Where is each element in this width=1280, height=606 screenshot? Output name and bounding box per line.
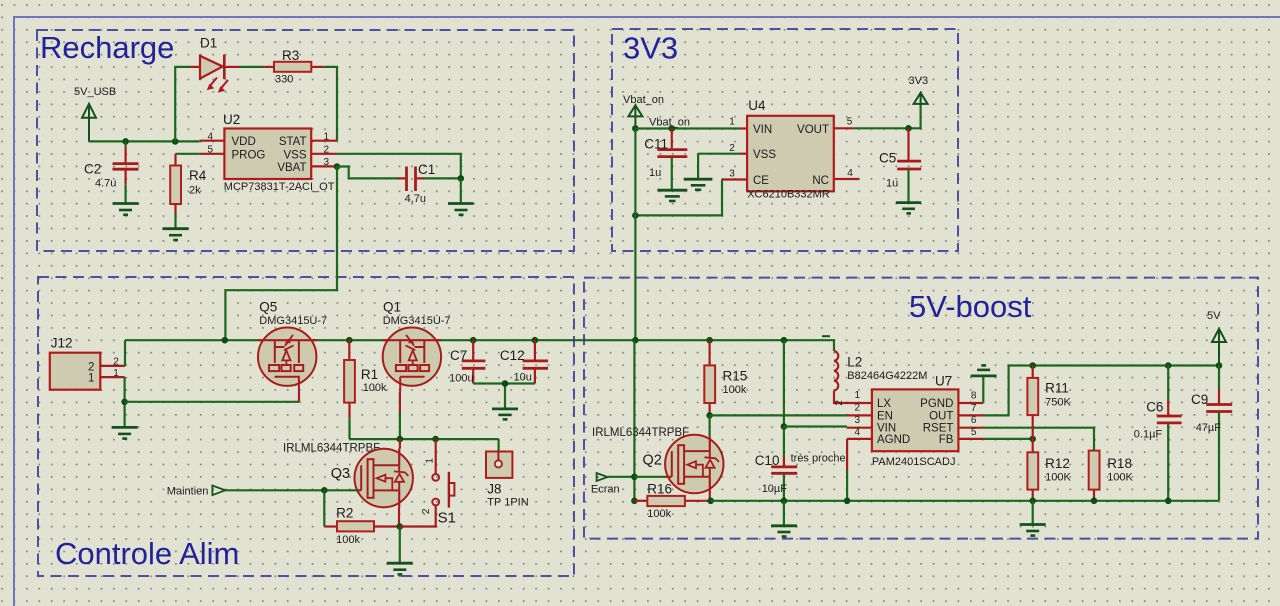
junction R16 left	[631, 498, 638, 505]
wire Q5 gate net	[125, 401, 299, 403]
svg-text:100k: 100k	[647, 508, 671, 520]
transistor Q2	[665, 435, 723, 501]
svg-text:XC6210B332MR: XC6210B332MR	[747, 189, 830, 201]
ground above PGND inverted	[971, 365, 997, 376]
wire VSS to ground	[698, 154, 740, 178]
svg-text:MCP73831T-2ACI_OT: MCP73831T-2ACI_OT	[224, 181, 335, 193]
svg-text:C2: C2	[84, 162, 101, 177]
capacitor C6	[1157, 366, 1182, 501]
svg-text:C11: C11	[644, 136, 668, 151]
wire R12 to ground	[1032, 501, 1034, 524]
U2 pin 1 STAT	[311, 140, 337, 142]
svg-text:DMG3415U-7: DMG3415U-7	[383, 315, 451, 327]
capacitor C12	[523, 340, 548, 383]
svg-text:Q3: Q3	[331, 466, 350, 482]
svg-text:C10: C10	[755, 453, 780, 468]
U7 pin 6 RSET	[958, 427, 983, 429]
svg-text:R12: R12	[1045, 456, 1070, 471]
svg-text:2: 2	[834, 400, 845, 406]
svg-text:VIN: VIN	[877, 423, 896, 435]
junction R12 bottom	[1029, 498, 1036, 505]
svg-text:6: 6	[971, 415, 977, 426]
wire 5V_USB rail	[89, 140, 200, 142]
svg-text:3: 3	[324, 157, 330, 168]
svg-text:D1: D1	[200, 36, 217, 51]
region box 3V3	[612, 29, 958, 251]
svg-text:7: 7	[971, 403, 977, 414]
junction C1 right	[458, 175, 465, 182]
svg-text:IRLML6344TRPBF: IRLML6344TRPBF	[283, 443, 380, 455]
svg-text:Q1: Q1	[383, 300, 401, 315]
svg-text:8: 8	[971, 391, 977, 402]
svg-text:5: 5	[847, 117, 853, 128]
svg-text:R11: R11	[1045, 381, 1069, 396]
wire D1 to R3	[240, 66, 265, 68]
svg-text:R1: R1	[361, 367, 378, 382]
svg-text:PROG: PROG	[232, 149, 266, 161]
region box 5V-boost	[584, 278, 1258, 539]
svg-text:R18: R18	[1107, 456, 1132, 471]
svg-text:Maintien: Maintien	[167, 486, 209, 498]
svg-text:IRLML6344TRPBF: IRLML6344TRPBF	[592, 427, 689, 439]
U4 pin 2 VSS	[740, 153, 747, 155]
svg-text:DMG3415U-7: DMG3415U-7	[259, 315, 327, 327]
wire D1 branch	[175, 67, 190, 141]
capacitor C5	[897, 128, 921, 201]
svg-text:5: 5	[971, 427, 977, 438]
svg-text:U2: U2	[223, 112, 240, 127]
wire C7 C12 join	[473, 384, 535, 409]
svg-text:1: 1	[324, 132, 330, 143]
wire bottom ground rail	[711, 500, 1219, 502]
capacitor C2	[113, 141, 139, 202]
svg-text:1: 1	[88, 372, 94, 384]
testpoint J8	[486, 452, 512, 478]
svg-text:C9: C9	[1191, 392, 1208, 407]
junction C5	[905, 125, 912, 132]
svg-text:R15: R15	[723, 369, 748, 384]
inductor L2	[822, 336, 872, 403]
wire VIN net	[784, 425, 847, 427]
svg-text:10µF: 10µF	[762, 483, 788, 495]
IC U4	[747, 116, 834, 192]
svg-text:Q2: Q2	[643, 453, 662, 469]
power symbol 3V3	[914, 93, 928, 105]
junction C7 C12 ground	[502, 380, 509, 387]
junction rail C12	[532, 337, 539, 344]
power symbol 5V_USB	[82, 104, 96, 142]
svg-text:100K: 100K	[1045, 472, 1071, 484]
capacitor C9	[1206, 366, 1232, 501]
svg-text:2: 2	[855, 402, 861, 413]
wire VBAT down to Controle Alim	[225, 167, 337, 341]
svg-text:Recharge: Recharge	[40, 30, 174, 65]
svg-text:1: 1	[113, 368, 119, 379]
wire R15 down to Q2 drain	[708, 415, 710, 436]
svg-text:1u: 1u	[649, 167, 661, 179]
wire Vbat down Ecran branch	[633, 340, 635, 501]
svg-text:VSS: VSS	[753, 149, 776, 161]
svg-text:2: 2	[113, 356, 119, 367]
svg-text:Controle Alim: Controle Alim	[55, 536, 239, 571]
wire Vbat_on down to rail	[634, 129, 636, 341]
junction J12 pin1 gate net	[121, 399, 128, 406]
junction C6 bottom	[1165, 498, 1172, 505]
svg-text:1: 1	[729, 117, 735, 128]
svg-text:1u: 1u	[886, 177, 898, 189]
wire Q3 source down	[398, 507, 400, 526]
svg-text:C7: C7	[450, 348, 467, 363]
svg-text:CE: CE	[753, 175, 769, 187]
svg-text:RSET: RSET	[923, 423, 954, 435]
junction Maintien R2	[321, 487, 328, 494]
svg-text:VOUT: VOUT	[797, 124, 829, 136]
junction VIN net	[781, 423, 788, 430]
svg-text:4: 4	[208, 132, 214, 143]
svg-text:2: 2	[324, 145, 330, 156]
wire PGND up	[982, 377, 984, 403]
wire C1 to ground	[460, 178, 462, 202]
input arrow Ecran	[597, 473, 608, 481]
svg-text:TP 1PIN: TP 1PIN	[487, 497, 528, 509]
ground below C7 C12	[492, 409, 518, 420]
resistor R16	[634, 496, 710, 506]
region box Controle Alim	[38, 277, 574, 576]
svg-text:R16: R16	[647, 481, 672, 496]
junction rail VIN branch	[781, 337, 788, 344]
svg-text:3: 3	[729, 168, 735, 179]
wire VSS net	[337, 154, 461, 179]
svg-text:100k: 100k	[723, 384, 747, 396]
J12 pin 1	[100, 376, 124, 378]
ground below C2	[113, 204, 139, 215]
junction Q2 source	[707, 498, 714, 505]
LED D1	[200, 55, 240, 93]
wire Q3 gate stub	[358, 489, 361, 491]
svg-text:R3: R3	[282, 48, 299, 63]
wire Vbat_on to U4 VIN	[635, 127, 740, 129]
junction rail R15	[706, 337, 713, 344]
svg-text:VIN: VIN	[753, 124, 772, 136]
junction R18 bottom	[1091, 498, 1098, 505]
wire OUT to 5V net	[983, 366, 1219, 416]
junction Vbat_on	[632, 125, 639, 132]
U2 pin 5 PROG	[200, 153, 225, 155]
ground below R12	[1020, 525, 1046, 536]
svg-text:47µF: 47µF	[1196, 422, 1222, 434]
ground below R4	[163, 229, 189, 240]
capacitor C7	[462, 340, 486, 383]
svg-text:5V_USB: 5V_USB	[74, 86, 116, 98]
svg-text:FB: FB	[939, 434, 954, 446]
U2 pin 4 VDD	[200, 140, 225, 142]
svg-text:STAT: STAT	[279, 136, 307, 148]
svg-text:2: 2	[729, 143, 735, 154]
junction C11	[669, 125, 676, 132]
svg-text:NC: NC	[812, 175, 829, 187]
wire J12 pin2 up to rail	[124, 340, 126, 366]
power symbol 5V	[1212, 329, 1226, 366]
ground below C5	[896, 203, 921, 214]
ground below U4 VSS	[684, 179, 713, 190]
wire Maintien down to R2	[323, 490, 325, 526]
svg-text:2: 2	[421, 508, 432, 514]
U4 pin 3 CE	[722, 178, 747, 180]
transistor Q3	[355, 449, 413, 508]
junction Q1 gate Q3 drain	[397, 436, 404, 443]
svg-text:C12: C12	[500, 348, 525, 363]
junction C6 top	[1165, 362, 1172, 369]
svg-text:U7: U7	[935, 374, 952, 389]
svg-text:S1: S1	[438, 510, 456, 527]
svg-text:J12: J12	[51, 336, 73, 351]
wire PROG to R4	[176, 153, 200, 155]
U7 pin 3 VIN	[847, 427, 872, 429]
transistor Q5	[258, 328, 316, 393]
wire Q5 gate stub	[298, 392, 300, 402]
wire RSET net	[983, 428, 1094, 451]
svg-text:100u: 100u	[449, 373, 473, 385]
resistor R18	[1089, 451, 1100, 501]
junction C2	[122, 138, 129, 145]
svg-text:4.7u: 4.7u	[95, 178, 116, 190]
U7 pin 2 EN	[847, 414, 872, 416]
junction Q3 source R2 S1	[397, 523, 404, 530]
U7 pin 4 AGND	[847, 438, 872, 440]
svg-text:OUT: OUT	[929, 410, 953, 422]
wire J12 pin1 down	[123, 377, 125, 426]
svg-text:3V3: 3V3	[909, 75, 929, 87]
ground below Q3	[387, 563, 413, 574]
resistor R4	[170, 154, 181, 228]
U4 pin 1 VIN	[740, 127, 747, 129]
svg-text:R2: R2	[336, 505, 353, 520]
ground right of C1	[448, 204, 474, 215]
junction FB R11 R12	[1029, 436, 1036, 443]
U4 pin 4 NC	[834, 178, 859, 180]
svg-text:EN: EN	[877, 410, 893, 422]
resistor R2	[324, 521, 400, 531]
capacitor C10	[771, 427, 797, 501]
svg-text:très proche: très proche	[791, 453, 846, 465]
svg-text:100K: 100K	[1107, 472, 1133, 484]
svg-text:750K: 750K	[1045, 397, 1071, 409]
junction D1 branch	[172, 138, 179, 145]
svg-text:B82464G4222M: B82464G4222M	[847, 370, 927, 382]
wire Maintien to Q3 gate	[225, 489, 358, 491]
wire FB net	[983, 438, 1032, 440]
resistor R1	[344, 340, 355, 439]
svg-text:L2: L2	[847, 355, 862, 370]
svg-text:2k: 2k	[189, 185, 201, 197]
svg-text:1: 1	[425, 458, 436, 464]
wire Q1 gate S1 J8 net	[350, 439, 499, 451]
svg-text:100k: 100k	[363, 382, 387, 394]
svg-text:VBAT: VBAT	[277, 162, 306, 174]
junction Ecran	[631, 474, 638, 481]
resistor R12	[1027, 439, 1038, 501]
wire VBAT to C1	[337, 167, 398, 179]
U7 pin 5 FB	[958, 438, 983, 440]
wire VOUT to 3V3	[854, 105, 921, 129]
U2 pin 2 VSS	[311, 153, 337, 155]
U7 pin 7 OUT	[958, 414, 983, 416]
svg-text:Ecran: Ecran	[591, 483, 620, 495]
svg-text:5: 5	[208, 145, 214, 156]
svg-text:3V3: 3V3	[623, 31, 678, 66]
svg-text:0.1µF: 0.1µF	[1134, 429, 1163, 441]
ground below C10	[771, 526, 797, 537]
svg-text:VSS: VSS	[283, 149, 306, 161]
junction R11 top	[1029, 362, 1036, 369]
connector J12	[50, 353, 101, 390]
region box Recharge	[37, 30, 574, 251]
svg-text:5V-boost: 5V-boost	[909, 289, 1032, 324]
svg-text:100k: 100k	[336, 534, 360, 546]
wire CE to Vbat_on net	[635, 180, 722, 216]
junction S1 branch	[432, 436, 439, 443]
svg-text:LX: LX	[877, 398, 891, 410]
U7 pin 8 PGND	[958, 402, 983, 404]
svg-text:C1: C1	[418, 162, 435, 177]
wire Q2 gate stub	[666, 476, 672, 478]
svg-text:Vbat_on: Vbat_on	[623, 94, 664, 106]
U2 pin 3 VBAT	[311, 165, 337, 167]
junction rail Q5 branch	[222, 337, 229, 344]
wire main battery rail	[125, 339, 829, 341]
svg-text:C6: C6	[1146, 400, 1163, 415]
svg-text:4: 4	[847, 168, 853, 179]
IC U7	[872, 389, 959, 451]
resistor R15	[704, 340, 715, 415]
J12 pin 2	[100, 365, 125, 367]
resistor R3	[264, 62, 323, 72]
wire rail to C10	[783, 340, 785, 426]
svg-text:4: 4	[855, 427, 861, 438]
svg-text:R4: R4	[189, 168, 207, 183]
wire Ecran to Q2 gate	[634, 476, 665, 478]
svg-text:J8: J8	[487, 482, 501, 497]
wire C10 to ground	[783, 501, 785, 525]
svg-text:330: 330	[275, 74, 293, 86]
capacitor C1	[398, 167, 461, 192]
svg-text:AGND: AGND	[877, 434, 910, 446]
junction C10 ground	[781, 498, 788, 505]
input arrow Maintien	[212, 486, 225, 496]
wire Q3 drain up	[399, 439, 401, 449]
svg-text:Q5: Q5	[259, 300, 277, 315]
svg-text:1: 1	[855, 390, 861, 401]
junction C9 top	[1216, 362, 1223, 369]
junction rail C7	[470, 337, 477, 344]
junction R15 EN	[706, 412, 713, 419]
wire Ecran to junction	[608, 476, 635, 478]
svg-text:4,7u: 4,7u	[405, 193, 426, 205]
power symbol Vbat_on	[628, 105, 642, 129]
junction CE net	[632, 212, 639, 219]
IC U2	[224, 129, 311, 180]
svg-text:PAM2401SCADJ: PAM2401SCADJ	[872, 456, 956, 468]
junction VBAT	[334, 163, 341, 170]
svg-text:3: 3	[855, 415, 861, 426]
switch S1	[400, 439, 455, 526]
svg-text:C5: C5	[879, 151, 896, 166]
wire R3 to U2 pin1	[324, 67, 337, 141]
svg-text:PGND: PGND	[920, 398, 953, 410]
wire AGND down	[846, 439, 848, 470]
U4 pin 5 VOUT	[834, 127, 854, 129]
transistor Q1	[383, 328, 441, 393]
svg-text:U4: U4	[748, 98, 766, 113]
ground below J12	[112, 427, 138, 438]
junction AGND	[844, 498, 851, 505]
resistor R11	[1027, 366, 1038, 439]
junction rail Vbat_on	[632, 337, 639, 344]
ground below C11	[657, 190, 687, 201]
wire Q1 gate stub	[399, 392, 401, 412]
svg-text:5V: 5V	[1207, 310, 1221, 322]
capacitor C11	[657, 129, 687, 190]
svg-text:10u: 10u	[514, 372, 532, 384]
svg-text:VDD: VDD	[232, 136, 256, 148]
junction rail R1	[346, 337, 353, 344]
wire EN net	[710, 414, 847, 416]
wire junction to ground	[399, 527, 401, 563]
